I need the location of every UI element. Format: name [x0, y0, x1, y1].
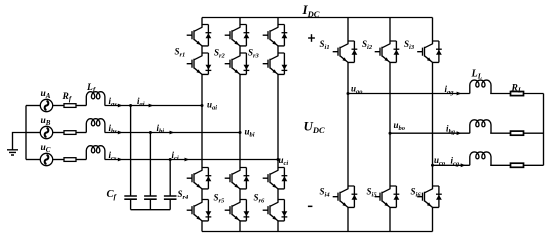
IGBT cell S_r2 row4 (transistor+diode): [225, 200, 250, 221]
IGBT cell S_i4 (transistor+diode): [333, 186, 358, 207]
IGBT cell S_i3 (transistor+diode): [417, 41, 442, 62]
inductor L_L phase c: [470, 152, 491, 165]
wire: DC negative rail: [202, 231, 433, 233]
IGBT cell S_r2 row2 (transistor+diode): [225, 53, 250, 74]
wire: R_L phase b to load star: [524, 132, 544, 134]
IGBT cell S_r2 row3 (transistor+diode): [225, 168, 250, 189]
junction phase a / C_f: [129, 104, 132, 107]
resistor R_L phase c: [511, 163, 524, 167]
IGBT cell S_i5 (transistor+diode): [375, 186, 400, 207]
IGBT cell S_r1 row1 (transistor+diode): [187, 25, 212, 46]
wire: phase C to rectifier leg 3: [105, 159, 278, 161]
current arrow i_as: [118, 104, 123, 108]
wire: DC positive rail: [202, 17, 433, 19]
wire: phase a output to load: [348, 93, 470, 95]
wire: phase b tap to C_f: [149, 133, 151, 197]
wire: inverter leg 2 segments: [389, 18, 391, 232]
IGBT cell S_r3 row4 (transistor+diode): [263, 200, 288, 221]
wire: u_A to R_f: [53, 105, 64, 107]
AC source u_C: [40, 153, 52, 165]
wire: R_L phase c to load star: [524, 164, 544, 166]
resistor R_f phase C: [64, 158, 76, 162]
IGBT cell S_r1 row4 (transistor+diode): [187, 200, 212, 221]
current arrow i_ag: [457, 92, 462, 96]
wire: neutral to ground: [13, 133, 27, 150]
capacitor C_f phase a: [124, 196, 137, 199]
wire: L_L to R_L phase b: [490, 132, 510, 134]
IGBT cell S_r3 row3 (transistor+diode): [263, 168, 288, 189]
IGBT cell S_r3 row2 (transistor+diode): [263, 53, 288, 74]
wire: rectifier leg 3 segments: [277, 18, 279, 232]
wire: L_L to R_L phase a: [490, 93, 510, 95]
wire: R_f to L_f phase C: [76, 159, 86, 161]
wire: R_f to L_f phase B: [76, 132, 86, 134]
wire: inverter leg 1 segments: [347, 18, 349, 232]
IGBT cell S_i6 (transistor+diode): [417, 186, 442, 207]
IGBT cell S_r3 row1 (transistor+diode): [263, 25, 288, 46]
IGBT cell S_i2 (transistor+diode): [375, 41, 400, 62]
wire: phase B to rectifier leg 2: [105, 132, 240, 134]
current arrow i_bg: [457, 131, 462, 135]
node u_bi: [239, 131, 242, 134]
node u_ao: [347, 92, 350, 95]
wire: source neutral bus: [25, 106, 27, 160]
resistor R_f phase A: [64, 104, 76, 108]
resistor R_f phase B: [64, 131, 76, 135]
wire: neutral to source u_C: [26, 159, 40, 161]
current arrow i_cs: [118, 158, 123, 162]
wire: L_L to R_L phase c: [490, 164, 510, 166]
inductor L_L phase b: [470, 120, 491, 133]
junction phase c / C_f: [169, 158, 172, 161]
IGBT cell S_r2 row1 (transistor+diode): [225, 25, 250, 46]
wire: C_f phase b to star rail: [149, 199, 151, 210]
node u_ai: [201, 104, 204, 107]
wire: phase a tap to C_f: [130, 106, 132, 197]
wire: capacitor star rail: [131, 209, 171, 211]
wire: R_L phase a to load star: [524, 93, 544, 95]
inductor L_f phase C: [86, 146, 105, 160]
current arrow i_bi: [170, 131, 175, 135]
resistor R_L phase b: [511, 131, 524, 135]
node u_co: [431, 164, 434, 167]
AC source u_B: [40, 126, 52, 138]
inductor L_L phase a: [470, 80, 491, 93]
wire: u_B to R_f: [53, 132, 64, 134]
wire: C_f phase c to star rail: [169, 199, 171, 210]
current arrow i_ci: [185, 158, 190, 162]
current arrow i_ai: [149, 104, 154, 108]
current arrow i_bs: [118, 131, 123, 135]
wire: neutral to source u_B: [26, 132, 40, 134]
label + (DC positive): [308, 34, 315, 42]
wire: rectifier leg 2 segments: [239, 18, 241, 232]
label - (DC negative): [308, 206, 313, 208]
wire: phase c output to load: [433, 164, 470, 166]
wire: rectifier leg 1 segments: [201, 18, 203, 232]
wire: C_f phase a to star rail: [130, 199, 132, 210]
wire: neutral to source u_A: [26, 105, 40, 107]
node u_bo: [389, 132, 392, 135]
ground: [7, 150, 18, 155]
wire: phase c tap to C_f: [169, 160, 171, 197]
wire: u_C to R_f: [53, 159, 64, 161]
wire: phase b output to load: [390, 132, 470, 134]
AC source u_A: [40, 99, 52, 111]
inductor L_f phase B: [86, 119, 105, 133]
junction phase b / C_f: [149, 131, 152, 134]
IGBT cell S_r1 row2 (transistor+diode): [187, 53, 212, 74]
current arrow i_cg: [461, 163, 466, 167]
capacitor C_f phase b: [144, 196, 157, 199]
wire: R_f to L_f phase A: [76, 105, 86, 107]
IGBT cell S_i1 (transistor+diode): [333, 41, 358, 62]
resistor R_L phase a: [511, 92, 524, 96]
capacitor C_f phase c: [164, 196, 177, 199]
IGBT cell S_r1 row3 (transistor+diode): [187, 168, 212, 189]
wire: inverter leg 3 segments: [432, 18, 434, 232]
wire: phase A to rectifier leg 1: [105, 105, 202, 107]
wire: load star bus: [543, 94, 545, 166]
node u_ci: [277, 158, 280, 161]
inductor L_f phase A: [86, 92, 105, 106]
